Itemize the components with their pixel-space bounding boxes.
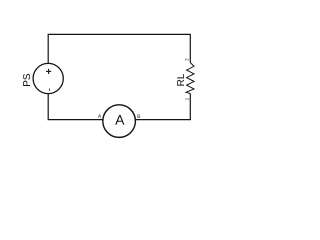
label PS [23, 74, 30, 86]
power supply PS circle [33, 63, 63, 93]
wire: from ammeter terminal B along bottom rail to bottom-right corner and up to resistor [136, 93, 191, 119]
PS minus sign (rotated dash) [48, 89, 50, 91]
ammeter circle [103, 105, 136, 138]
label RL [177, 74, 184, 86]
pin number 1 (bottom of RL) [185, 98, 188, 100]
PS plus sign [46, 69, 51, 74]
wire: left side below PS down to bottom-left corner, bottom rail to ammeter terminal A [48, 94, 103, 120]
resistor RL zigzag [186, 63, 194, 94]
node A (left terminal label) [98, 114, 101, 117]
wire: top rail with left and right drops [48, 34, 190, 63]
pin number 2 (top of RL) [185, 59, 188, 61]
node B (right terminal label) [138, 115, 141, 118]
ammeter letter A [115, 115, 124, 125]
